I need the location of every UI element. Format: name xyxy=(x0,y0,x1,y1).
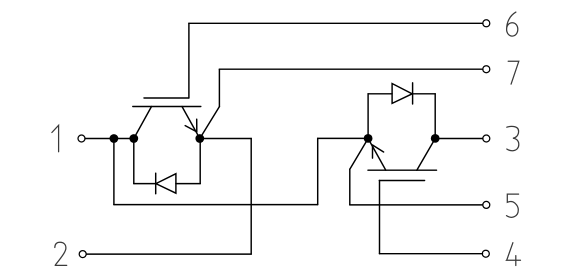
wire node D up xyxy=(367,94,369,139)
wire pin 2 horizontal xyxy=(86,253,251,255)
transistor Q2 channel bar xyxy=(368,169,437,171)
node A junction dot xyxy=(110,134,119,143)
transistor Q1 channel bar xyxy=(133,106,201,108)
label 1 xyxy=(52,125,59,152)
wire pin 7 vertical xyxy=(218,69,220,106)
wire pin1 to node A xyxy=(85,138,114,140)
transistor Q2 gate lead xyxy=(379,181,381,254)
terminal 2 circle xyxy=(79,251,86,258)
transistor Q1 emitter arrow xyxy=(185,119,197,132)
wire node C right xyxy=(200,138,251,140)
node C junction dot xyxy=(195,134,204,143)
wire aux vertical xyxy=(349,169,351,205)
wire to diode D1 cathode xyxy=(134,183,156,185)
wire to pin 4 xyxy=(380,253,483,255)
wire node B down to diode xyxy=(133,139,135,184)
transistor Q2 gate bar xyxy=(379,180,424,182)
wire mid to node D xyxy=(318,137,368,139)
transistor Q1 gate bar xyxy=(144,97,189,99)
wire pin 7 horizontal xyxy=(219,68,483,70)
transistor Q1 collector slant xyxy=(134,107,152,139)
terminal 4 circle xyxy=(482,250,489,257)
node D junction dot xyxy=(364,134,373,143)
wire node D aux slant xyxy=(350,139,368,170)
label 6 xyxy=(507,12,518,36)
wire mid riser up xyxy=(317,138,319,204)
wire diode D2 cathode xyxy=(413,93,436,95)
transistor Q2 emitter slant xyxy=(368,139,386,171)
diode D2 cathode bar xyxy=(412,83,414,104)
transistor Q1 gate lead xyxy=(188,23,190,98)
terminal 5 circle xyxy=(483,201,490,208)
label 7 xyxy=(508,61,519,84)
terminal 6 circle xyxy=(483,20,490,27)
wire down to pin2 level xyxy=(250,139,252,255)
transistor Q2 collector slant xyxy=(417,139,435,171)
label 3 xyxy=(507,126,519,150)
label 5 xyxy=(507,194,519,217)
diode D1 cathode bar xyxy=(155,173,157,194)
diode D1 triangle xyxy=(156,174,176,194)
wire to pin 6 xyxy=(189,22,483,24)
label 4 xyxy=(507,243,521,266)
diode D2 triangle xyxy=(392,84,412,104)
wire down to node E xyxy=(434,94,436,139)
wire pin 7 slant to node C xyxy=(200,107,220,139)
node B junction dot xyxy=(129,134,138,143)
terminal 1 circle xyxy=(78,135,85,142)
terminal 3 circle xyxy=(483,135,490,142)
wire up to node C xyxy=(199,139,201,184)
wire bottom horizontal to mid riser xyxy=(114,204,318,206)
label 2 xyxy=(55,242,67,265)
transistor Q1 emitter slant xyxy=(182,107,200,139)
wire node A to node B xyxy=(114,138,134,140)
wire node E to pin 3 xyxy=(435,138,483,140)
transistor Q2 emitter arrow xyxy=(373,145,384,158)
wire diode D1 anode xyxy=(176,183,200,185)
wire node A down xyxy=(113,139,115,205)
wire to pin 5 xyxy=(350,204,483,206)
terminal 7 circle xyxy=(483,66,490,73)
wire to diode D2 anode xyxy=(368,93,392,95)
node E junction dot xyxy=(431,134,440,143)
